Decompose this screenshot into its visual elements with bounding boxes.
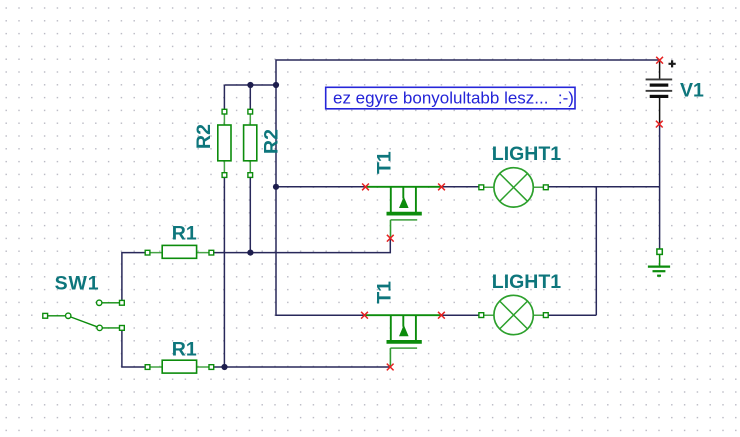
svg-text:R1: R1	[172, 223, 197, 245]
switch SW1	[43, 300, 125, 331]
transistor T1 upper (MOSFET)	[367, 187, 442, 238]
svg-text:LIGHT1: LIGHT1	[492, 143, 561, 165]
svg-text:LIGHT1: LIGHT1	[492, 271, 561, 293]
wire from junction down to R2 right top pin	[249, 85, 251, 110]
wire R1 top left to switch upper throw	[122, 253, 148, 303]
svg-text:R2: R2	[193, 124, 215, 149]
pin marker X at upper T1 gate	[387, 235, 394, 242]
ground	[648, 249, 670, 276]
resistor R2 left	[218, 109, 231, 177]
pin marker X at upper T1 drain	[362, 184, 369, 191]
wire lower T1 source to lamp2	[441, 314, 478, 316]
junction at rail y85 and R2 right	[247, 82, 253, 88]
wire upper T1 source to lamp1	[442, 186, 479, 188]
wire battery minus down to ground	[659, 124, 661, 250]
lamp LIGHT1 lower	[479, 295, 548, 334]
wire top rail to battery plus	[276, 60, 660, 85]
wire R2 right bottom down to upper gate net	[249, 176, 251, 253]
junction at upper gate net and R2 right bottom	[247, 250, 253, 256]
transistor T1 lower (MOSFET)	[366, 315, 442, 366]
resistor R1 top	[145, 245, 214, 258]
pin marker X at lower T1 drain	[361, 312, 368, 319]
svg-text:R1: R1	[172, 339, 197, 361]
junction at rail y85 and x276 column	[273, 82, 279, 88]
svg-text:ez egyre bonyolultabb lesz...: ez egyre bonyolultabb lesz... :-)	[333, 88, 574, 107]
pin marker X at battery plus	[656, 57, 663, 64]
wire from junction to upper T1 drain	[276, 186, 366, 188]
svg-text:T1: T1	[373, 151, 395, 174]
pin marker X at lower T1 gate	[387, 364, 394, 371]
wire switch lower throw to R1 bottom left	[122, 328, 148, 367]
svg-text:V1: V1	[680, 80, 704, 102]
wire rail corner down to R2 left top pin	[223, 85, 225, 110]
wire bottom net from R1 to lower T1 gate	[211, 366, 390, 368]
pin marker X at battery minus	[656, 121, 663, 128]
wire vertical x276 from rail down to lower T1 drain	[276, 85, 365, 315]
wire vertical tee x596 joining lamp2 to lamp1 net	[595, 187, 597, 315]
wire lamp1 right to battery minus column	[546, 186, 660, 188]
battery V1	[646, 60, 676, 124]
wire rail y85 between R2 tops	[224, 84, 276, 86]
wire upper gate net from R1 to T1 gate	[211, 238, 390, 252]
pin marker X at upper T1 source	[438, 184, 445, 191]
lamp LIGHT1 upper	[479, 168, 548, 207]
wire lamp2 right to vertical tee	[546, 314, 597, 316]
annotation text box	[326, 87, 575, 109]
svg-text:T1: T1	[374, 281, 396, 304]
resistor R1 bottom	[145, 360, 214, 373]
wire R2 left bottom down to bottom net	[223, 176, 225, 367]
junction at bottom net and R2 left bottom	[221, 364, 227, 370]
svg-text:R2: R2	[260, 129, 282, 154]
junction at x276 and upper T1 drain wire	[273, 184, 279, 190]
svg-text:SW1: SW1	[55, 273, 100, 295]
pin marker X at lower T1 source	[438, 312, 445, 319]
resistor R2 right	[244, 109, 257, 177]
